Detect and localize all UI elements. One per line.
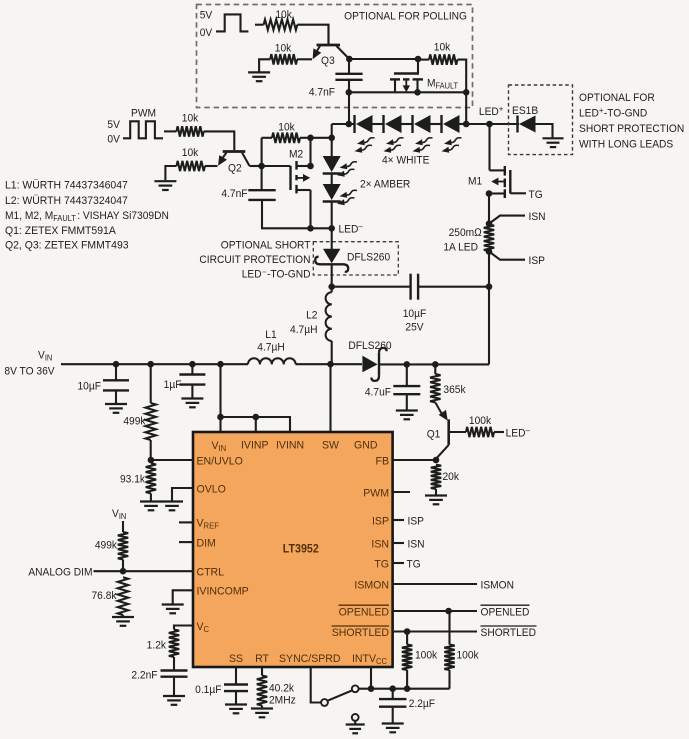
node VIN junction 1uF (189, 361, 196, 368)
svg-text:L2: WÜRTH 74437324047: L2: WÜRTH 74437324047 (5, 195, 128, 207)
node INTVCC junction (368, 685, 375, 692)
node SW junction (327, 361, 334, 368)
inductor L1 4.7uH (248, 358, 296, 364)
svg-text:4.7nF: 4.7nF (309, 86, 336, 98)
svg-text:100k: 100k (415, 649, 438, 661)
wire VREF stub (179, 521, 193, 523)
resistor 10k (M2 gate pull-up) (262, 133, 311, 143)
svg-text:0.1µF: 0.1µF (195, 684, 222, 696)
pin PWM (363, 487, 389, 499)
svg-text:10µF: 10µF (403, 308, 427, 320)
resistor 10k (polling top) (255, 20, 329, 45)
wire LED+ down to M1 (488, 124, 490, 170)
capacitor 4.7nF (M2 gate) (248, 190, 275, 200)
wire amber node to 10k (311, 137, 332, 139)
svg-text:DFLS260: DFLS260 (348, 340, 391, 352)
wire FB (393, 459, 436, 461)
wire amber D2 to LED- node (331, 202, 333, 229)
pin ISP (372, 515, 389, 527)
wire ISN stub (393, 542, 404, 544)
svg-text:: VISHAY Si7309DN: : VISHAY Si7309DN (77, 210, 169, 222)
label 10uF (403, 308, 427, 320)
label TG (M1) (529, 189, 543, 201)
pin RT (255, 653, 269, 665)
wire 365k to Q1 emitter (435, 402, 447, 420)
svg-text:EN/UVLO: EN/UVLO (197, 455, 243, 467)
resistor 365k (430, 364, 440, 402)
svg-text:ES1B: ES1B (512, 105, 538, 117)
svg-text:10k: 10k (275, 42, 292, 54)
svg-text:OPENLED: OPENLED (481, 606, 530, 618)
label 100k (OPENLED) (457, 649, 480, 661)
svg-text:LED–: LED– (339, 222, 364, 236)
svg-text:ISN: ISN (529, 211, 546, 223)
svg-text:CTRL: CTRL (197, 566, 225, 578)
ground (1uF) (181, 399, 203, 408)
resistor 1.2k (169, 630, 179, 670)
node 4.7uF junction (404, 361, 411, 368)
svg-text:100k: 100k (457, 649, 480, 661)
resistor 499k (ctrl) (118, 532, 128, 571)
label 25V (405, 321, 424, 333)
label OPTIONAL FOR POLLING (344, 10, 467, 22)
svg-text:RT: RT (255, 653, 269, 665)
svg-text:VIN: VIN (38, 349, 52, 363)
label parts list Q2Q3 (5, 239, 129, 251)
pwm square waveform (123, 121, 163, 138)
svg-text:93.1k: 93.1k (120, 473, 146, 485)
svg-text:SHORTLED: SHORTLED (481, 627, 537, 639)
pin EN/UVLO (197, 455, 243, 467)
label ISMON (net) (481, 579, 514, 591)
ground (Q2 emitter resistor) (154, 181, 176, 190)
led white D4 (442, 115, 460, 133)
dashed box ES1B (509, 85, 573, 155)
resistor 10k (polling emitter) (259, 54, 312, 71)
resistor 100k (SHORTLED) (402, 632, 412, 689)
wire INTVCC stub (370, 667, 372, 689)
svg-text:M1: M1 (468, 175, 482, 187)
wire VIN rail (61, 363, 248, 365)
node MFAULT drain junction (414, 89, 421, 96)
pin IVINP (241, 439, 269, 451)
node Q2 collector junction (258, 163, 265, 170)
node M1 drain corner (486, 190, 493, 197)
svg-text:SHORTLED: SHORTLED (332, 627, 389, 639)
label 4.7uF (365, 386, 392, 398)
label OPTIONAL SHORT (221, 239, 311, 251)
wire white D3 to D4 (431, 123, 442, 125)
label SHORTLED (net) (481, 626, 537, 639)
label M1 (468, 175, 482, 187)
svg-text:ANALOG DIM: ANALOG DIM (28, 566, 92, 578)
node 10uF right junction (486, 283, 493, 290)
wire SW stub (329, 364, 331, 432)
svg-text:PWM: PWM (363, 487, 389, 499)
label 4.7uH (L1) (257, 341, 284, 353)
capacitor 2.2nF (161, 671, 188, 677)
node CTRL junction (120, 568, 127, 575)
wire DIM stub (179, 541, 193, 543)
wire ISP tap (489, 252, 525, 260)
label parts list M (5, 210, 169, 224)
label 5V (pwm) (107, 119, 120, 131)
node VIN junction 10uF (113, 361, 120, 368)
node 10k/M2 drain junction (307, 135, 314, 142)
pin DIM (197, 537, 216, 549)
svg-text:L1: WÜRTH 74437346047: L1: WÜRTH 74437346047 (5, 179, 128, 191)
wire throw to ground (354, 721, 356, 724)
wire node to 4.7nF (261, 166, 263, 189)
led amber D2 (323, 184, 341, 202)
label 4.7uH (L2) (290, 324, 317, 336)
svg-text:IVINN: IVINN (276, 439, 304, 451)
svg-text:ISMON: ISMON (481, 579, 514, 591)
wire M2 drain up (309, 138, 311, 166)
label 4x WHITE (382, 154, 429, 166)
label 1A LED (443, 241, 478, 253)
label 2.2uF (409, 698, 436, 710)
light rays white D3 (413, 138, 433, 153)
label OPTIONAL FOR (579, 92, 655, 104)
mosfet M2 (262, 161, 311, 193)
light rays white D4 (442, 138, 462, 153)
label 20k (443, 471, 460, 483)
wire junction to cap 4.7nF (polling) (348, 59, 350, 73)
svg-text:L1: L1 (265, 329, 276, 341)
pin CTRL (197, 566, 225, 578)
svg-text:ISP: ISP (529, 255, 545, 267)
svg-text:GND: GND (354, 439, 378, 451)
svg-text:2.2µF: 2.2µF (409, 698, 436, 710)
svg-text:OPTIONAL FOR POLLING: OPTIONAL FOR POLLING (344, 10, 467, 22)
label 10k (MFAULT) (434, 41, 451, 53)
pin ISN (371, 538, 389, 550)
light rays white D1 (355, 138, 375, 153)
capacitor 2.2uF (379, 689, 406, 723)
svg-text:2× AMBER: 2× AMBER (360, 178, 411, 190)
label SHORT PROTECTION (579, 123, 684, 135)
ground (IVINCOMP) (162, 605, 184, 614)
label 5V (polling) (200, 9, 213, 21)
pin VIN (212, 440, 227, 453)
svg-text:4.7µH: 4.7µH (290, 324, 317, 336)
label M2 (289, 148, 303, 160)
svg-text:10µF: 10µF (77, 380, 101, 392)
node amber string junction (328, 135, 335, 142)
pin IVINCOMP (197, 585, 249, 597)
label ES1B (512, 105, 538, 117)
svg-text:0V: 0V (200, 27, 213, 39)
node 365k junction (432, 361, 439, 368)
pin OVLO (197, 483, 226, 495)
label WITH LONG LEADS (579, 138, 673, 150)
label 365k (443, 384, 466, 396)
ground (OVLO) (161, 502, 183, 511)
svg-text:8V TO 36V: 8V TO 36V (4, 365, 55, 377)
label Q2 (228, 162, 242, 174)
label parts list L2 (5, 195, 128, 207)
pin INTVCC (352, 653, 387, 666)
label VIN (ctrl divider) (112, 508, 126, 522)
wire OVLO (172, 488, 193, 501)
wire diode to output (380, 363, 490, 365)
wire 0.1uF ground lead (235, 692, 237, 704)
label 499k (EN) (123, 415, 146, 427)
svg-text:ISP: ISP (408, 515, 424, 527)
node output-cap left junction (328, 283, 335, 290)
wire LED+ to ES1B (490, 123, 520, 125)
label 93.1k (120, 473, 146, 485)
svg-text:-TO-GND: -TO-GND (604, 107, 648, 119)
svg-text:CIRCUIT PROTECTION: CIRCUIT PROTECTION (199, 254, 310, 266)
label Q3 (321, 55, 335, 67)
svg-text:DIM: DIM (197, 537, 216, 549)
svg-text:100k: 100k (469, 415, 492, 427)
ground (switch) (346, 725, 365, 734)
label 100k (Q1) (469, 415, 492, 427)
label LED+-TO-GND (579, 106, 648, 120)
wire VIN rail to VIN pin (219, 364, 221, 432)
svg-text:OPTIONAL SHORT: OPTIONAL SHORT (221, 239, 311, 251)
ground (polling emitter resistor) (248, 72, 270, 81)
svg-text:OPENLED: OPENLED (339, 606, 390, 618)
resistor 499k (EN/UVLO upper) (146, 364, 156, 460)
led white D1 (355, 115, 373, 133)
ground (0.1uF) (225, 705, 247, 714)
label ISN (sense) (529, 211, 546, 223)
svg-text:4.7uF: 4.7uF (365, 386, 392, 398)
svg-text:4.7nF: 4.7nF (221, 188, 248, 200)
node cap/polling junction on LED+ row (346, 121, 353, 128)
pin SHORTLED (332, 626, 390, 639)
svg-text:Q1: ZETEX FMMT591A: Q1: ZETEX FMMT591A (5, 225, 117, 237)
transistor Q2 (218, 152, 249, 166)
resistor 100k (OPENLED) (444, 611, 454, 689)
svg-text:ISN: ISN (371, 538, 389, 550)
label 40.2k (269, 682, 295, 694)
label parts list Q1 (5, 225, 117, 237)
switch throw GND (352, 714, 359, 721)
label ISN (net) (408, 538, 425, 550)
wire SYNC/SPRD to switch (311, 667, 321, 703)
svg-text:TG: TG (529, 189, 543, 201)
wire ISN tap (489, 216, 525, 224)
label 10k (Q2 emitter) (182, 147, 199, 159)
pin VC (197, 621, 210, 634)
label 10k (polling top) (275, 9, 292, 21)
svg-text:SW: SW (322, 439, 340, 451)
wire L1 to SW node (296, 363, 331, 365)
resistor 10k (MFAULT gate) (418, 54, 466, 92)
wire 10uF to ISP node (418, 286, 489, 288)
switch pole (321, 699, 328, 706)
label 2x AMBER (360, 178, 411, 190)
svg-text:IVINCOMP: IVINCOMP (197, 585, 249, 597)
label ISP (sense) (529, 255, 545, 267)
label parts list L1 (5, 179, 128, 191)
led amber D1 (323, 156, 341, 174)
label LED--TO-GND (242, 268, 311, 280)
svg-text:10k: 10k (434, 41, 451, 53)
node M2 drain corner (307, 163, 314, 170)
transistor Q3 (313, 25, 350, 59)
ground (input 10uF) (105, 404, 127, 413)
resistor 20k (431, 465, 441, 495)
svg-text:MFAULT: MFAULT (427, 77, 458, 91)
svg-text:499k: 499k (95, 539, 118, 551)
node LED- junction (328, 225, 335, 232)
diode DFLS260 #1 (315, 228, 348, 286)
svg-text:WITH LONG LEADS: WITH LONG LEADS (579, 138, 673, 150)
svg-text:IVINP: IVINP (241, 439, 269, 451)
wire LED+ node segment (466, 123, 489, 125)
wire Q3-collector to MFAULT gate node (349, 58, 418, 60)
svg-text:OPTIONAL FOR: OPTIONAL FOR (579, 92, 655, 104)
wire TG stub (393, 562, 404, 564)
node Q3 collector junction (346, 56, 353, 63)
node OPENLED junction (445, 608, 452, 615)
wire VC (174, 626, 193, 630)
svg-text:LT3952: LT3952 (283, 543, 319, 555)
svg-text:ISP: ISP (372, 515, 389, 527)
svg-text:M1, M2, MFAULT: M1, M2, MFAULT (5, 210, 76, 224)
led white D2 (384, 115, 402, 133)
node MFAULT source junction (346, 89, 353, 96)
pin ISMON (354, 579, 389, 591)
pin GND (354, 439, 378, 451)
label 250mOhm (449, 227, 482, 239)
ground (76.8k) (112, 617, 134, 626)
svg-text:25V: 25V (405, 321, 424, 333)
node 2.2uF junction (389, 685, 396, 692)
resistor 40.2k (257, 676, 267, 708)
node LED+ junction (M1) (486, 121, 493, 128)
svg-text:Q3: Q3 (321, 55, 335, 67)
capacitor 4.7nF (polling) (335, 74, 362, 80)
label 10uF (input) (77, 380, 101, 392)
diode DFLS260 #2 (362, 348, 386, 381)
label 0V (polling) (200, 27, 213, 39)
wire VIN tap to IVINN (221, 417, 291, 432)
label 100k (SHORTLED) (415, 649, 438, 661)
resistor 100k (Q1 base) (466, 427, 504, 437)
svg-text:VIN: VIN (112, 508, 126, 522)
switch lever (328, 691, 352, 701)
ground (4.7uF) (396, 411, 418, 420)
wire M2 source down (309, 190, 311, 228)
label MFAULT (427, 77, 458, 91)
optional-for-polling dashed box (197, 5, 473, 108)
svg-text:M2: M2 (289, 148, 303, 160)
svg-text:Q2, Q3: ZETEX FMMT493: Q2, Q3: ZETEX FMMT493 (5, 239, 129, 251)
label 10k (Q2 base) (182, 112, 199, 124)
label 8V TO 36V (4, 365, 55, 377)
label 10k (M2) (278, 121, 295, 133)
dashed box DFLS260 #1 (313, 242, 398, 275)
mosfet M1 (489, 166, 526, 198)
wire SW to diode (331, 363, 363, 365)
ground (2.2nF) (163, 696, 185, 705)
label LED- (339, 222, 364, 236)
label L1 (265, 329, 276, 341)
label 76.8k (91, 590, 117, 602)
wire LED+ down to amber node (331, 124, 333, 138)
wire PWM stub (393, 491, 410, 493)
pulse waveform (polling) (216, 14, 248, 31)
svg-text:LED+: LED+ (479, 104, 504, 118)
label PWM (131, 107, 156, 119)
transistor Q1 (436, 419, 466, 458)
light rays amber D1 (337, 162, 357, 177)
wire amber D1 to D2 (331, 174, 333, 185)
svg-text:10k: 10k (182, 147, 199, 159)
svg-text:PWM: PWM (131, 107, 156, 119)
label DFLS260 #1 (347, 251, 390, 263)
svg-text:2.2nF: 2.2nF (131, 669, 158, 681)
svg-text:10k: 10k (275, 9, 292, 21)
ground (20k) (425, 496, 447, 505)
pin SS (229, 653, 243, 665)
wire 4.7nF to LED+ row (348, 81, 350, 124)
label Q1 (427, 428, 441, 440)
svg-text:1A LED: 1A LED (443, 241, 478, 253)
wire M1 drain down (488, 194, 490, 224)
label ANALOG DIM (28, 566, 92, 578)
wire 2.2nF to ground (173, 678, 175, 695)
wire IVINCOMP (173, 590, 193, 603)
label LED- (Q1) (506, 426, 531, 440)
pin SW (322, 439, 340, 451)
pin VREF (197, 517, 220, 530)
label 1uF (164, 379, 182, 391)
wire RT stub (261, 667, 263, 676)
resistor 10k (Q2 emitter) (165, 161, 217, 180)
resistor 10k (Q2 base) (164, 126, 234, 150)
pin TG (374, 558, 389, 570)
wire ISP stub (393, 519, 404, 521)
label 4.7nF (polling) (309, 86, 336, 98)
wire IVINP stub (255, 417, 257, 432)
led white D3 (413, 115, 431, 133)
svg-text:L2: L2 (306, 309, 317, 321)
wire amber node down (331, 138, 333, 156)
ground (93.1k) (140, 502, 162, 511)
mosfet MFAULT (390, 59, 423, 92)
svg-text:20k: 20k (443, 471, 460, 483)
wire LED+ left segment (332, 123, 355, 125)
label 499k (ctrl) (95, 539, 118, 551)
svg-text:FB: FB (376, 455, 389, 467)
node ISP junction (486, 248, 493, 255)
label LED+ (479, 104, 504, 118)
pin IVINN (276, 439, 304, 451)
svg-text:LED–: LED– (506, 426, 531, 440)
resistor 93.1k (146, 463, 156, 500)
ic LT3952 body (193, 432, 393, 667)
node IVINP tap (253, 414, 260, 421)
svg-text:DFLS260: DFLS260 (347, 251, 390, 263)
light rays amber D2 (337, 190, 357, 205)
wire node up to 10k (261, 138, 263, 166)
svg-text:SHORT PROTECTION: SHORT PROTECTION (579, 123, 684, 135)
capacitor 4.7uF (393, 364, 420, 409)
label L2 (306, 309, 317, 321)
node M2 source junction (307, 225, 314, 232)
label OPENLED (net) (481, 605, 530, 618)
wire white D2 to D3 (402, 123, 413, 125)
label VIN (input) (38, 349, 52, 363)
